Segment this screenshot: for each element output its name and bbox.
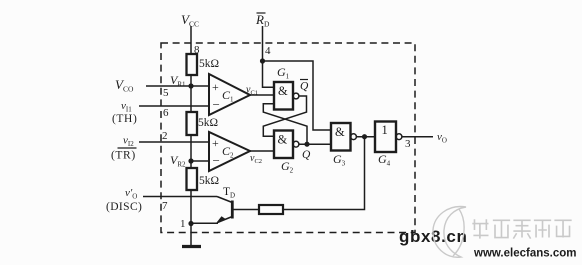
svg-text:vO: vO	[437, 131, 447, 145]
wire R2 to node VR2	[190, 135, 192, 168]
wire pin 7 discharge DISC	[106, 187, 217, 213]
svg-text:5: 5	[163, 87, 169, 99]
pin 8 VCC lead	[181, 12, 200, 56]
wire vC1 comparator C1 output to G1	[246, 85, 274, 97]
svg-text:−: −	[213, 153, 220, 168]
svg-text:+: +	[212, 80, 219, 94]
resistor R3 5kΩ bottom	[187, 168, 220, 190]
junction Q node	[304, 142, 309, 147]
wire vC2 comparator C2 output to G2	[250, 151, 274, 165]
svg-text:C1: C1	[222, 88, 234, 104]
output bubble G1	[293, 93, 299, 99]
svg-text:VR2: VR2	[170, 153, 186, 169]
svg-text:&: &	[278, 133, 288, 147]
svg-text:5kΩ: 5kΩ	[199, 175, 219, 187]
svg-text:Q: Q	[300, 81, 309, 93]
resistor R1 5kΩ top	[187, 54, 220, 75]
wire R4 to TD base	[233, 209, 259, 211]
svg-text:VCC: VCC	[181, 12, 199, 29]
wire pin 5 control voltage VCO	[115, 77, 209, 99]
svg-text:4: 4	[265, 45, 271, 57]
wire VR1 to R2	[190, 86, 192, 112]
svg-text:G4: G4	[378, 152, 391, 168]
transistor TD	[216, 186, 235, 223]
svg-text:vC2: vC2	[250, 153, 262, 165]
svg-text:1: 1	[382, 123, 388, 137]
svg-text:www.elecfans.com: www.elecfans.com	[473, 248, 576, 260]
wire TD emitter to node 1	[191, 222, 218, 224]
junction G3 output node	[362, 134, 367, 139]
NAND gate G2	[274, 131, 294, 175]
svg-text:2: 2	[162, 130, 168, 142]
watermark elecfans logo	[433, 207, 577, 260]
wire G1 output Qbar to G2 input	[263, 80, 309, 137]
svg-text:vI1: vI1	[121, 100, 132, 114]
dashed IC package boundary	[161, 43, 415, 233]
resistor R4 base resistor	[259, 205, 283, 214]
wire G3 output to G4 input	[357, 136, 376, 138]
wire G2 output Q to G3 input	[299, 144, 331, 161]
output bubble G3	[351, 134, 357, 140]
svg-text:+: +	[212, 136, 219, 150]
wire R3 to node 1	[190, 190, 192, 224]
svg-text:Q: Q	[302, 149, 311, 161]
wire RD down to G1 input	[263, 61, 275, 87]
node 1	[180, 218, 194, 230]
wire pin 6 threshold TH	[112, 100, 209, 125]
svg-text:vC1: vC1	[246, 85, 258, 97]
svg-text:TD: TD	[223, 186, 235, 200]
wire R1 to node VR1	[190, 75, 192, 86]
svg-text:&: &	[335, 125, 345, 139]
svg-text:RD: RD	[255, 12, 270, 29]
node VR1	[170, 73, 194, 89]
comparator C2	[209, 132, 250, 171]
svg-text:7: 7	[162, 200, 168, 212]
svg-text:5kΩ: 5kΩ	[199, 58, 219, 70]
svg-text:6: 6	[163, 107, 169, 119]
node RD branch	[260, 58, 265, 63]
resistor R2 5kΩ middle	[187, 112, 219, 135]
output bubble G4	[396, 134, 402, 140]
node VR2	[170, 153, 194, 169]
pin 4 reset RD lead	[255, 12, 271, 61]
svg-text:(DISC): (DISC)	[106, 201, 142, 213]
wire Q junction up to G1 input	[263, 104, 307, 144]
ground	[182, 224, 201, 247]
svg-text:G3: G3	[333, 152, 346, 168]
svg-text:C2: C2	[222, 144, 234, 160]
svg-text:1: 1	[180, 218, 186, 230]
inverter G4	[375, 122, 396, 168]
comparator C1	[209, 74, 250, 115]
output bubble G2	[293, 141, 299, 147]
svg-text:VCO: VCO	[115, 77, 134, 94]
wire node VR2 to C2 inverting input	[191, 160, 209, 162]
svg-text:G1: G1	[277, 65, 290, 81]
wire pin 3 output vO	[402, 131, 447, 150]
NAND gate G1	[274, 65, 293, 110]
svg-text:5kΩ: 5kΩ	[198, 117, 218, 129]
svg-text:G2: G2	[281, 159, 294, 175]
svg-text:&: &	[278, 84, 288, 98]
NAND gate G3	[331, 123, 351, 168]
svg-text:(TH): (TH)	[112, 113, 137, 125]
svg-text:vI2: vI2	[123, 135, 134, 149]
svg-text:−: −	[213, 97, 220, 112]
svg-text:(TR): (TR)	[111, 150, 136, 162]
svg-text:3: 3	[405, 138, 411, 150]
wire RD across to G3 input	[263, 61, 332, 130]
svg-text:v′O: v′O	[125, 187, 137, 201]
wire pin 2 trigger TR	[111, 130, 209, 162]
wire G3 output node down to R4	[283, 137, 365, 210]
